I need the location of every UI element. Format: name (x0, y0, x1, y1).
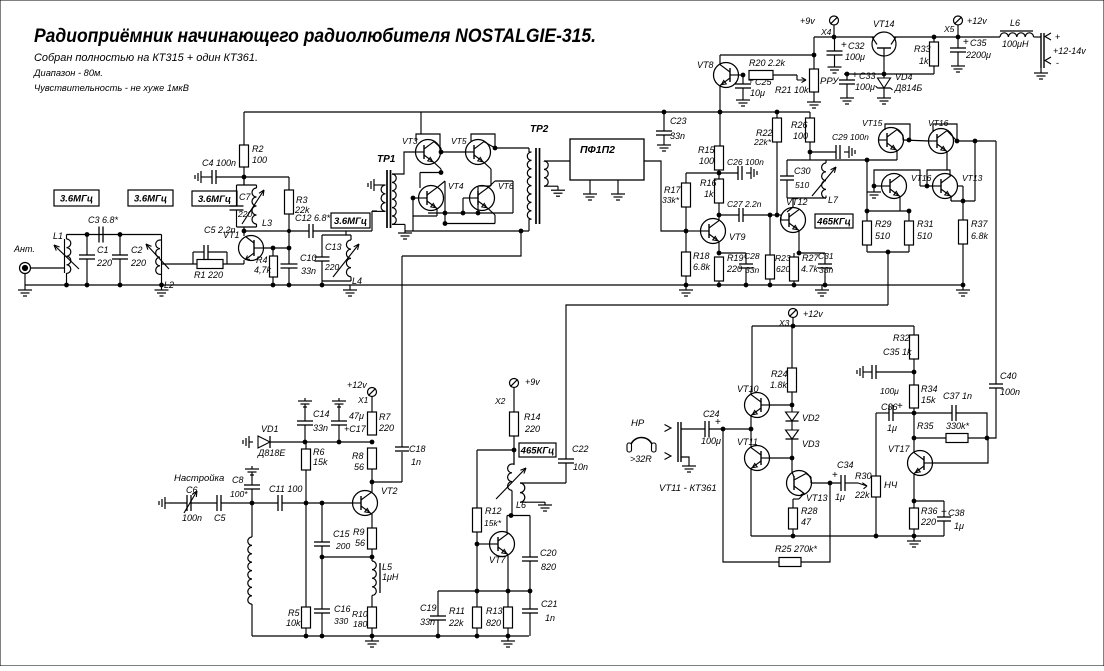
resistor R8 56 (368, 448, 377, 469)
svg-text:200: 200 (335, 541, 350, 551)
transistor VT9 (701, 219, 726, 244)
svg-text:R26: R26 (791, 120, 808, 130)
svg-text:R13: R13 (486, 606, 503, 616)
svg-text:33n: 33n (301, 266, 316, 276)
svg-text:Радиоприёмник начинающего ради: Радиоприёмник начинающего радиолюбителя … (34, 25, 596, 47)
svg-text:6.8k: 6.8k (971, 231, 989, 241)
node C19 rail (436, 634, 440, 638)
svg-text:C27 2.2n: C27 2.2n (727, 199, 762, 209)
transistor VT15 (879, 128, 904, 153)
svg-text:R18: R18 (693, 251, 710, 261)
svg-text:VT13: VT13 (962, 173, 983, 183)
svg-text:R20 2.2k: R20 2.2k (749, 58, 786, 68)
svg-text:R17: R17 (664, 185, 682, 195)
transistor VT1 (239, 236, 264, 261)
svg-text:1k: 1k (919, 56, 929, 66)
capacitor C11 100 (277, 495, 279, 511)
svg-text:220: 220 (524, 424, 540, 434)
wire L2 to R1 (162, 263, 198, 265)
node VT1 collector (242, 229, 246, 233)
svg-text:2200μ: 2200μ (965, 50, 991, 60)
svg-text:15k*: 15k* (484, 518, 502, 528)
node mixer2 output (886, 250, 890, 254)
wire VT8 collector (719, 55, 721, 65)
ground TP1 primary top (374, 184, 379, 186)
wire pot top to C36 (875, 413, 877, 476)
wire VT7 collector node to C20 (512, 515, 530, 517)
ground L2 (161, 285, 163, 290)
svg-text:VT1: VT1 (223, 230, 240, 240)
svg-text:X1: X1 (357, 395, 369, 405)
wire VT11 base (769, 457, 792, 459)
node VD3 bottom (790, 456, 794, 460)
svg-text:R27: R27 (802, 253, 820, 263)
node R29 top (865, 209, 869, 213)
node C2 top (118, 233, 122, 237)
terminal X1 +12v (368, 388, 377, 397)
capacitor C3 6.8* (98, 227, 100, 243)
jack ground (681, 457, 689, 465)
tank C7 L3 (237, 184, 257, 186)
svg-text:X4: X4 (820, 27, 832, 37)
resistor R24 1.8k (791, 326, 793, 368)
node VT16 collector (955, 139, 959, 143)
svg-text:C35 1k: C35 1k (883, 347, 912, 357)
svg-text:VD3: VD3 (802, 439, 820, 449)
svg-text:R32: R32 (893, 333, 910, 343)
svg-text:C13: C13 (325, 242, 342, 252)
transistor VT3 (416, 140, 441, 165)
wire VT15 emitter (896, 150, 898, 160)
transistor VT7 (490, 532, 515, 557)
wire VT4 collector (437, 181, 445, 188)
svg-text:180: 180 (353, 619, 367, 629)
inductor L5 1μH (371, 557, 373, 561)
svg-text:C38: C38 (948, 508, 965, 518)
audio ground rail y536 (751, 535, 944, 537)
node R6 bottom (304, 501, 308, 505)
box 3.6МГц #2 (128, 190, 173, 206)
capacitor C37 1n (914, 412, 952, 414)
svg-text:+: + (897, 401, 903, 412)
wire detector out to C40 (995, 141, 997, 384)
svg-text:3.6МГц: 3.6МГц (198, 194, 231, 205)
svg-text:+: + (963, 37, 969, 48)
capacitor C5' (216, 495, 218, 511)
wire VT13 mid emitter (950, 196, 952, 201)
svg-text:R9: R9 (353, 527, 365, 537)
svg-text:100n: 100n (182, 513, 202, 523)
svg-text:R24: R24 (771, 369, 788, 379)
svg-text:C18: C18 (409, 444, 426, 454)
node R5 rail (304, 634, 308, 638)
svg-text:C19: C19 (420, 603, 437, 613)
resistor R15 100 (715, 146, 724, 170)
svg-text:1n: 1n (545, 613, 555, 623)
resistor R5 10k (305, 503, 307, 607)
transistor VT5 (466, 140, 491, 165)
svg-text:33k*: 33k* (662, 195, 680, 205)
tuning coil (251, 503, 253, 537)
svg-text:R21 10k: R21 10k (775, 85, 809, 95)
wire VT12 collector (787, 207, 793, 212)
resistor R34 15k (910, 385, 919, 408)
resistor R10 180 (368, 607, 377, 628)
svg-text:R35: R35 (917, 421, 935, 431)
TP1 secondary winding (392, 174, 396, 224)
svg-text:НЧ: НЧ (884, 480, 898, 491)
wire mixer2 out down (974, 141, 976, 201)
wire mixer 213 (428, 212, 513, 214)
svg-text:Ант.: Ант. (13, 244, 35, 254)
svg-text:C6: C6 (186, 485, 198, 495)
bottom ground rail (252, 635, 529, 637)
svg-text:C10: C10 (300, 253, 317, 263)
capacitor C35' 100μ (863, 371, 866, 373)
ground antenna (24, 274, 26, 286)
wire pot bottom (875, 497, 877, 536)
wire tank top stem (243, 177, 245, 185)
loop VT5 base-collector (471, 134, 495, 148)
svg-text:6.8k: 6.8k (693, 262, 711, 272)
svg-text:220: 220 (324, 262, 339, 272)
node R2 bottom (242, 175, 246, 179)
node R31 top (907, 209, 911, 213)
svg-text:1n: 1n (411, 457, 421, 467)
svg-text:+: + (1055, 32, 1060, 42)
wire top rail to R15 (719, 112, 721, 146)
wire VT13 emitter (799, 493, 804, 499)
node R14 bottom (512, 448, 516, 452)
resistor R2 100 (240, 145, 249, 167)
capacitor C28 33n (719, 252, 746, 254)
svg-text:3.6МГц: 3.6МГц (334, 216, 367, 227)
wire VT6 base (463, 197, 470, 199)
terminal X4 +9v (830, 16, 839, 25)
svg-text:R7: R7 (379, 412, 391, 422)
node C1 rail (85, 283, 89, 287)
svg-text:C3 6.8*: C3 6.8* (88, 215, 119, 225)
transistor VT10 (745, 393, 770, 418)
TP1 primary winding (379, 184, 386, 186)
node R10 rail (370, 634, 374, 638)
wire C24 to output node (709, 428, 751, 430)
node R4 rail (271, 283, 275, 287)
node R18 rail (684, 283, 688, 287)
svg-text:C16: C16 (334, 604, 351, 614)
resistor R36 220 (913, 501, 915, 508)
svg-text:C11 100: C11 100 (269, 484, 302, 494)
box 3.6МГц #1 (54, 190, 99, 206)
box 465КГц #1 (815, 214, 853, 228)
svg-text:C29 100n: C29 100n (832, 132, 869, 142)
wire VT10 base (769, 404, 792, 406)
node R19 rail (717, 283, 721, 287)
wire to VT12 base (773, 214, 781, 216)
injection wire from oscillator (402, 231, 521, 256)
svg-text:C28: C28 (744, 251, 760, 261)
svg-text:47μ: 47μ (349, 411, 364, 421)
svg-text:15k: 15k (313, 457, 328, 467)
wire VT17 emitter (913, 473, 915, 501)
wire VT16 collector right (947, 131, 957, 141)
capacitor C21 1n (529, 591, 531, 609)
svg-text:R2: R2 (252, 144, 264, 154)
resistor R7 220 (371, 397, 373, 413)
svg-text:C37 1n: C37 1n (943, 391, 972, 401)
node emitters (749, 427, 753, 431)
node C16 rail (320, 634, 324, 638)
resistor R35 330k* (914, 437, 946, 439)
node R13 (506, 589, 510, 593)
svg-text:R33: R33 (914, 44, 931, 54)
loop VT13 mid (927, 170, 950, 186)
node R35 right (985, 436, 989, 440)
wire VT10 emitter (750, 415, 752, 429)
svg-text:L2: L2 (164, 280, 174, 290)
wire VT15 collector to VT16 base (897, 130, 903, 135)
svg-text:+9v: +9v (525, 377, 540, 387)
TP2 primary winding (527, 152, 531, 219)
svg-text:C30: C30 (794, 166, 811, 176)
wire TP2 primary bottom (529, 218, 532, 220)
capacitor C2 220 (119, 235, 121, 256)
wire VT9 base (686, 230, 701, 232)
resistor R11 22k (476, 591, 478, 607)
svg-text:R28: R28 (801, 506, 818, 516)
resistor R31 510 (908, 211, 910, 221)
svg-text:33n: 33n (819, 265, 833, 275)
capacitor C23 33n (663, 112, 665, 131)
svg-text:1μ: 1μ (835, 492, 845, 502)
svg-text:C40: C40 (1000, 371, 1017, 381)
svg-text:Д814Б: Д814Б (894, 83, 922, 93)
svg-text:VD1: VD1 (261, 424, 279, 434)
node R7-R8 (370, 440, 374, 444)
svg-text:VT11: VT11 (737, 437, 758, 447)
wire R1 to VT1 emitter (223, 263, 244, 265)
ground audio (913, 536, 915, 541)
wire TP2 secondary bottom (544, 185, 558, 187)
capacitor C16 330 (321, 557, 323, 609)
main ground rail (25, 284, 962, 286)
node C20-C21 (528, 589, 532, 593)
node R35 left (912, 436, 916, 440)
feedback R25 270k* (723, 429, 779, 562)
wire tank top to TP1 (346, 230, 372, 232)
svg-text:Д818Е: Д818Е (257, 448, 286, 458)
wire VT5 emitter down (484, 162, 491, 169)
resistor R28 47 (789, 508, 798, 529)
node C17 (337, 440, 341, 444)
node C25 (741, 73, 745, 77)
capacitor C32 100μ (834, 37, 836, 51)
wire tank bottom stem (243, 227, 245, 231)
node C8 (250, 501, 254, 505)
filter ground pin 2 (617, 180, 619, 191)
svg-text:100μH: 100μH (1002, 39, 1029, 49)
svg-text:100μ: 100μ (701, 436, 721, 446)
wire VT6 emitter (488, 208, 495, 215)
svg-text:Собран полностью на КТ315 + од: Собран полностью на КТ315 + один КТ361. (34, 52, 258, 64)
resistor R26 100 (809, 112, 811, 118)
svg-text:C14: C14 (313, 409, 330, 419)
svg-text:100: 100 (793, 131, 808, 141)
wire TP1 secondary bottom (392, 223, 405, 225)
svg-text:47: 47 (801, 517, 812, 527)
ground output (1040, 68, 1042, 70)
capacitor C15 200 (321, 503, 323, 542)
+12v feed line (752, 325, 914, 327)
node R11 rail (475, 634, 479, 638)
svg-text:VT16: VT16 (928, 118, 949, 128)
svg-text:L3: L3 (262, 218, 272, 228)
svg-text:VT10: VT10 (737, 384, 759, 394)
svg-text:4.7k: 4.7k (801, 264, 819, 274)
svg-text:R19: R19 (727, 253, 744, 263)
ground L6 (544, 502, 546, 505)
wire bias line (305, 441, 372, 443)
svg-text:10n: 10n (573, 462, 588, 472)
svg-text:R15: R15 (698, 145, 716, 155)
svg-text:C23: C23 (670, 116, 687, 126)
transistor VT17 (908, 451, 933, 476)
resistor R13 820 (507, 591, 509, 607)
ground tuning input (165, 502, 169, 504)
transistor VT12 (781, 208, 806, 233)
IF transformer L6 (513, 450, 515, 464)
svg-text:+: + (852, 70, 858, 81)
svg-text:R1 220: R1 220 (194, 270, 223, 280)
loop VT4 (413, 198, 437, 216)
svg-text:4,7k: 4,7k (254, 265, 272, 275)
wire VT6 collector (488, 181, 495, 188)
svg-text:R25 270k*: R25 270k* (775, 544, 818, 554)
svg-text:R12: R12 (485, 506, 502, 516)
svg-text:3.6МГц: 3.6МГц (60, 194, 93, 205)
svg-text:510: 510 (875, 231, 890, 241)
svg-text:820: 820 (541, 562, 556, 572)
svg-text:R6: R6 (313, 447, 325, 457)
wire filter output (644, 161, 686, 231)
svg-text:+12-14v: +12-14v (1053, 46, 1086, 56)
node VT2 collector (370, 480, 374, 484)
resistor R22 22k* (776, 112, 778, 118)
wire to L6 (958, 36, 1000, 38)
capacitor C10 33n (288, 248, 290, 264)
resistor R29 510 (866, 211, 868, 221)
svg-text:15k: 15k (921, 395, 936, 405)
ground TP1 secondary (404, 224, 406, 233)
inductor L1 (64, 239, 66, 273)
svg-text:+9v: +9v (800, 16, 815, 26)
capacitor C27 2.2n (719, 214, 739, 216)
svg-text:R16: R16 (700, 178, 717, 188)
wire VT7 emitter (507, 554, 508, 556)
svg-text:C32: C32 (848, 41, 865, 51)
node VT5 collector (493, 146, 497, 150)
volume potentiometer НЧ (872, 476, 881, 497)
node VT14 base (882, 72, 886, 76)
node R37 ground (961, 283, 965, 287)
transistor VT16 top (929, 129, 954, 154)
node R32 bottom (912, 370, 916, 374)
resistor R19 220 (715, 257, 724, 281)
svg-text:1μ: 1μ (954, 521, 964, 531)
capacitor C36 1μ (876, 412, 889, 414)
svg-text:X2: X2 (494, 396, 506, 406)
svg-text:C35: C35 (970, 38, 988, 48)
svg-text:1μH: 1μH (382, 572, 399, 582)
svg-text:100n: 100n (1000, 387, 1020, 397)
svg-text:1μ: 1μ (887, 423, 897, 433)
ground TP2 secondary (557, 186, 559, 190)
svg-text:100: 100 (699, 156, 714, 166)
svg-text:R3: R3 (296, 195, 308, 205)
svg-text:VT9: VT9 (729, 232, 746, 242)
node L1 rail (65, 283, 69, 287)
wire to VT13 base (791, 458, 793, 472)
wire VT9 collector (718, 215, 720, 220)
node mixer2 input (865, 158, 869, 162)
svg-text:100*: 100* (230, 489, 248, 499)
svg-text:465КГц: 465КГц (520, 446, 555, 457)
svg-text:X3: X3 (778, 318, 790, 328)
wire C12 to L4 tank (313, 230, 346, 232)
svg-text:C15: C15 (333, 529, 351, 539)
capacitor C25 10μ (742, 75, 744, 84)
transistor VT13 (787, 471, 812, 496)
wire L6 secondary top to C22 (520, 482, 566, 484)
svg-text:R34: R34 (921, 384, 938, 394)
wire L6 to output (1034, 36, 1041, 38)
wire TP2 secondary top to filter (544, 160, 570, 162)
node R9 bottom (370, 555, 374, 559)
capacitor C5 2.2n (192, 252, 194, 264)
svg-text:Настройка: Настройка (174, 473, 224, 484)
svg-text:+: + (832, 470, 838, 481)
node tank bottom rail (320, 283, 324, 287)
terminal X5 +12v (954, 16, 963, 25)
svg-text:C22: C22 (572, 444, 589, 454)
svg-text:VT2: VT2 (381, 486, 398, 496)
svg-text:+: + (715, 417, 721, 428)
svg-text:VT16: VT16 (911, 173, 932, 183)
wire C34 to volume pot (845, 482, 858, 484)
wire VT2 collector (371, 491, 372, 494)
wire VT11 emitter (750, 429, 752, 448)
transistor VT16 mid (882, 174, 907, 199)
svg-text:R5: R5 (288, 608, 300, 618)
tank C13 L4 (322, 234, 351, 236)
capacitor C18 1n (372, 481, 402, 483)
svg-text:L7: L7 (828, 195, 839, 205)
variable capacitor C6 100n (169, 502, 187, 504)
svg-text:22k: 22k (448, 618, 464, 628)
node L2 rail (160, 283, 164, 287)
svg-text:C5: C5 (214, 513, 226, 523)
svg-text:100: 100 (252, 155, 267, 165)
ground R37 (962, 285, 964, 290)
svg-text:VT8: VT8 (697, 60, 714, 70)
node VT8 emitter rail (718, 110, 722, 114)
potentiometer РРУ R21 10k (813, 55, 815, 69)
svg-text:R14: R14 (524, 412, 541, 422)
transistor VT11 (745, 446, 770, 471)
node pot rail (874, 534, 878, 538)
node C15 top (320, 501, 324, 505)
wire VT3 emitter down (434, 162, 441, 169)
